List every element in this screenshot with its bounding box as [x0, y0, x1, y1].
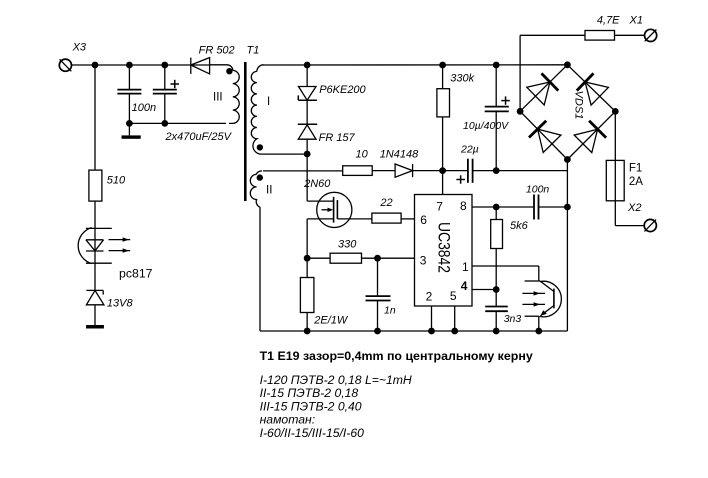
wire pin8 [472, 206, 534, 208]
transformer T1 winding II [250, 171, 262, 207]
node pin4/3n3 junction [493, 286, 500, 293]
diode 1N4148 [395, 164, 413, 177]
wire P6KE drop [306, 65, 308, 87]
ground (zener) [86, 325, 104, 329]
wire pin5 drop [454, 306, 456, 331]
svg-text:T1: T1 [247, 45, 260, 57]
capacitor 100n (input) [117, 65, 141, 123]
node bridge right [612, 108, 619, 115]
terminal X3 [59, 59, 71, 71]
wire winding II bottom lead [259, 207, 261, 331]
svg-text:4: 4 [461, 279, 468, 293]
wire 22u to bridge minus line [473, 170, 568, 172]
wire 10 to 1N4148 [372, 170, 395, 172]
wire 5k6 to pin4 node [495, 249, 497, 307]
bridge rectifier VDS1 [520, 65, 615, 160]
resistor 330k [437, 89, 450, 117]
node rail/2E junction [304, 328, 311, 335]
svg-text:6: 6 [420, 213, 427, 227]
wire pin2 drop [431, 306, 433, 331]
svg-text:2: 2 [426, 289, 433, 303]
node bridge bottom [564, 156, 571, 163]
wire caps bottom to winding III [129, 122, 226, 124]
node rail/100n junction [126, 62, 133, 69]
capacitor 2x470uF/25V [153, 65, 179, 123]
svg-text:T1 E19 зазор=0,4mm по централь: T1 E19 зазор=0,4mm по центральному керну [260, 349, 533, 363]
capacitor 22u [456, 159, 472, 184]
capacitor 10u/400V [485, 65, 510, 171]
node rail/1n junction [374, 328, 381, 335]
node drain junction [304, 151, 311, 158]
svg-text:X2: X2 [627, 202, 641, 214]
resistor 510 [89, 170, 102, 201]
node winding I polarity dot [257, 144, 263, 150]
svg-text:330: 330 [338, 239, 357, 251]
wire winding I bottom lead [260, 153, 307, 155]
terminal X2 [644, 219, 656, 231]
diode bridge BR [589, 121, 606, 138]
svg-text:330k: 330k [450, 73, 474, 85]
wire pin7 drop [442, 171, 444, 195]
wire top rail winding I to bridge [263, 64, 567, 66]
wire bridge right to fuse [614, 111, 616, 225]
wire FR157 to drain node [306, 139, 308, 201]
svg-text:2N60: 2N60 [303, 178, 331, 190]
svg-text:4,7E: 4,7E [597, 15, 620, 27]
node rail/10u400V junction [493, 62, 500, 69]
node bridge top [564, 61, 571, 68]
svg-text:I: I [267, 96, 270, 108]
svg-text:III-15 ПЭТВ-2 0,40: III-15 ПЭТВ-2 0,40 [260, 399, 362, 413]
node rail/P6KE junction [304, 62, 311, 69]
svg-text:22µ: 22µ [460, 143, 479, 155]
capacitor 1n [366, 258, 391, 331]
svg-text:UC3842: UC3842 [434, 222, 453, 273]
wire zener to ground [94, 305, 96, 325]
node vcc/330k junction [439, 167, 446, 174]
svg-text:3: 3 [420, 254, 427, 268]
svg-text:1n: 1n [384, 304, 396, 316]
svg-text:VDS1: VDS1 [573, 91, 585, 120]
node 470uF bottom [161, 120, 168, 127]
wire 330 to pin3 [362, 257, 415, 259]
diode FR 502 [191, 58, 210, 74]
terminal X1 [645, 29, 657, 41]
diode FR 157 [298, 124, 317, 139]
wire 510 to LED [94, 201, 96, 290]
svg-text:II: II [266, 185, 272, 197]
diode bridge BL [529, 121, 546, 138]
resistor 5k6 [491, 220, 503, 249]
wire 330k bottom [442, 117, 444, 171]
svg-text:8: 8 [460, 199, 467, 213]
svg-text:1N4148: 1N4148 [380, 148, 419, 160]
diode zener 13V8 [86, 290, 104, 304]
svg-text:FR 157: FR 157 [319, 132, 356, 144]
op-amp U1 UC3842 box [415, 195, 473, 307]
transformer T1 winding III [210, 65, 240, 124]
svg-text:I-60/II-15/III-15/I-60: I-60/II-15/III-15/I-60 [260, 426, 365, 440]
svg-text:5k6: 5k6 [510, 220, 529, 232]
svg-text:2E/1W: 2E/1W [313, 315, 349, 327]
node 100n bottom [126, 120, 133, 127]
svg-text:10µ/400V: 10µ/400V [463, 120, 509, 132]
diode bridge TL [542, 73, 559, 90]
svg-text:3n3: 3n3 [504, 313, 522, 325]
node rail/opto junction [535, 328, 542, 335]
svg-text:P6KE200: P6KE200 [319, 84, 366, 96]
wire pin4 [472, 289, 496, 291]
wire top-left rail X3 to winding III [72, 64, 211, 66]
svg-text:10: 10 [356, 148, 369, 160]
svg-text:X3: X3 [72, 42, 87, 54]
wire 330 left [307, 257, 330, 259]
wire 5k6 top [495, 207, 497, 220]
svg-text:X1: X1 [629, 15, 643, 27]
node rail/pin5 junction [451, 328, 458, 335]
wire 330k top [442, 65, 444, 89]
wire 1N4148 to 22u [413, 170, 468, 172]
wire 2E to rail [306, 313, 308, 332]
node rail/510 junction [92, 62, 99, 69]
transistor 2N60 MOSFET [307, 192, 372, 227]
node winding III polarity dot [226, 68, 232, 74]
node rail/pin2 junction [428, 328, 435, 335]
svg-text:510: 510 [107, 175, 126, 187]
wire ground rail [260, 330, 567, 332]
node pin8/5k6 junction [493, 204, 500, 211]
svg-text:I-120 ПЭТВ-2 0,18 L=~1mH: I-120 ПЭТВ-2 0,18 L=~1mH [260, 373, 412, 387]
wire 510 drop [94, 65, 96, 170]
wire 22 to pin6 [401, 218, 414, 220]
svg-text:22: 22 [379, 197, 392, 209]
wire P6KE to FR157 [306, 100, 308, 124]
svg-text:7: 7 [436, 200, 443, 214]
svg-text:13V8: 13V8 [107, 298, 134, 310]
diode bridge TR [577, 73, 594, 90]
resistor 10 [343, 166, 373, 176]
node source/330 junction [304, 255, 311, 262]
wire fuse to X2 [615, 225, 644, 227]
wire ground drop [128, 123, 130, 135]
transformer T1 winding I [251, 65, 263, 154]
resistor 330 [330, 253, 361, 263]
node bridge left [517, 108, 524, 115]
wire pin1 to opto [472, 266, 539, 281]
svg-text:pc817: pc817 [119, 266, 153, 280]
resistor 2E/1W [300, 278, 314, 313]
svg-text:намотан:: намотан: [260, 413, 316, 427]
svg-text:2x470uF/25V: 2x470uF/25V [165, 131, 233, 143]
svg-text:1: 1 [462, 260, 469, 274]
optocoupler pc817 LED side [78, 228, 130, 264]
capacitor 100n (vcc) [534, 195, 567, 220]
resistor 4,7E [585, 31, 615, 41]
svg-text:100n: 100n [132, 102, 156, 114]
wire winding II top lead [263, 170, 343, 172]
transformer T1 core [244, 62, 247, 201]
wire X1 branch [520, 35, 585, 111]
node rail/330k junction [439, 62, 446, 69]
diode P6KE200 [298, 87, 317, 101]
svg-text:100n: 100n [526, 183, 550, 195]
wire source drop [306, 219, 308, 278]
node winding II polarity dot [257, 174, 263, 180]
svg-text:III: III [213, 92, 223, 104]
svg-text:II-15 ПЭТВ-2 0,18: II-15 ПЭТВ-2 0,18 [260, 386, 359, 400]
node rail/470uF junction [161, 62, 168, 69]
svg-text:5: 5 [450, 289, 457, 303]
optocoupler pc817 transistor side [522, 281, 561, 331]
node 1n junction [374, 255, 381, 262]
node 100n/bridge minus junction [564, 204, 571, 211]
svg-text:F1: F1 [629, 163, 642, 175]
resistor 22 [372, 213, 401, 223]
wire 4,7E to X1 [615, 34, 645, 36]
wire bridge minus drop [566, 160, 568, 332]
svg-text:2A: 2A [629, 176, 643, 188]
fuse F1 2A [606, 160, 624, 200]
svg-text:FR 502: FR 502 [199, 45, 235, 57]
node vcc/10u junction [493, 167, 500, 174]
capacitor 3n3 [485, 307, 508, 332]
node rail/3n3 junction [493, 328, 500, 335]
ground (output) [122, 135, 141, 138]
